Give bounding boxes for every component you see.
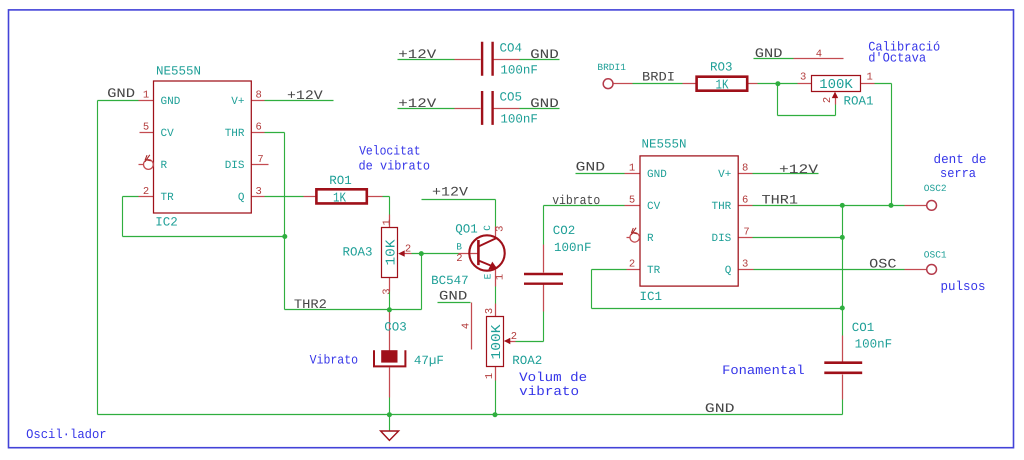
svg-text:1: 1 [143, 90, 149, 102]
svg-text:GND: GND [530, 47, 559, 62]
svg-text:Q: Q [725, 265, 732, 277]
svg-text:2: 2 [822, 97, 834, 103]
svg-text:E: E [483, 273, 494, 279]
svg-text:CV: CV [647, 201, 661, 213]
svg-text:4: 4 [816, 48, 822, 60]
svg-text:DIS: DIS [225, 160, 245, 172]
svg-text:IC1: IC1 [640, 290, 663, 304]
svg-text:1: 1 [629, 163, 635, 175]
svg-text:NE555N: NE555N [642, 137, 687, 151]
svg-text:de vibrato: de vibrato [359, 158, 431, 173]
svg-text:1: 1 [484, 373, 496, 379]
svg-text:BRDI1: BRDI1 [597, 62, 626, 73]
svg-text:3: 3 [742, 259, 748, 271]
svg-text:GND: GND [705, 401, 735, 416]
svg-text:OSC: OSC [869, 257, 897, 272]
svg-text:47µF: 47µF [414, 354, 444, 368]
svg-text:+12V: +12V [398, 96, 436, 111]
svg-text:2: 2 [143, 186, 149, 198]
svg-text:R: R [161, 160, 168, 172]
svg-text:OSC1: OSC1 [924, 249, 947, 260]
svg-text:CO3: CO3 [384, 321, 407, 335]
svg-text:CV: CV [161, 128, 175, 140]
svg-text:3: 3 [381, 288, 393, 294]
svg-text:pulsos: pulsos [941, 279, 986, 294]
svg-text:1K: 1K [716, 78, 730, 93]
svg-text:QO1: QO1 [455, 222, 478, 236]
svg-text:GND: GND [161, 96, 181, 108]
svg-text:1: 1 [495, 274, 507, 280]
svg-text:Vibrato: Vibrato [310, 353, 359, 368]
svg-text:DIS: DIS [711, 233, 731, 245]
svg-text:B: B [456, 242, 462, 253]
svg-text:V+: V+ [718, 169, 731, 181]
svg-text:7: 7 [257, 154, 263, 166]
svg-text:THR: THR [711, 201, 731, 213]
svg-text:GND: GND [107, 86, 135, 101]
svg-text:Oscil·lador: Oscil·lador [26, 427, 107, 442]
svg-text:2: 2 [405, 243, 411, 255]
svg-text:GND: GND [647, 169, 667, 181]
svg-text:CO1: CO1 [852, 321, 875, 335]
svg-text:CO4: CO4 [500, 41, 523, 55]
svg-text:5: 5 [143, 122, 149, 134]
svg-text:8: 8 [742, 163, 748, 175]
svg-text:GND: GND [755, 46, 783, 61]
svg-text:5: 5 [629, 195, 635, 207]
svg-text:C: C [482, 225, 493, 231]
svg-text:1: 1 [867, 71, 873, 83]
svg-text:Volum de: Volum de [519, 370, 587, 385]
svg-text:GND: GND [439, 289, 468, 304]
svg-text:vibrato: vibrato [552, 193, 600, 208]
svg-text:3: 3 [256, 186, 262, 198]
svg-text:100K: 100K [490, 324, 505, 360]
svg-text:2: 2 [629, 259, 635, 271]
svg-text:100nF: 100nF [855, 338, 893, 352]
svg-text:+12V: +12V [398, 47, 436, 62]
svg-text:Fonamental: Fonamental [722, 363, 805, 378]
svg-text:100nF: 100nF [500, 64, 538, 78]
svg-text:THR1: THR1 [762, 193, 799, 208]
svg-text:BRDI: BRDI [642, 70, 675, 85]
svg-text:NE555N: NE555N [156, 64, 201, 78]
svg-text:OSC2: OSC2 [924, 183, 947, 194]
svg-text:100nF: 100nF [554, 241, 592, 255]
svg-text:Q: Q [238, 192, 245, 204]
svg-text:CO2: CO2 [553, 224, 576, 238]
svg-text:dent de: dent de [934, 152, 987, 167]
svg-text:4: 4 [461, 323, 473, 329]
svg-text:V+: V+ [231, 96, 244, 108]
svg-text:ROA1: ROA1 [844, 94, 874, 108]
svg-text:100K: 100K [819, 78, 853, 93]
svg-text:3: 3 [800, 71, 806, 83]
svg-text:GND: GND [530, 96, 559, 111]
svg-text:7: 7 [743, 227, 749, 239]
svg-text:IC2: IC2 [155, 215, 178, 229]
svg-text:serra: serra [940, 166, 976, 181]
svg-text:RO3: RO3 [710, 60, 733, 74]
svg-text:+12V: +12V [432, 184, 468, 199]
svg-text:2: 2 [456, 253, 462, 265]
svg-text:vibrato: vibrato [519, 384, 579, 399]
svg-text:3: 3 [484, 308, 496, 314]
svg-text:100nF: 100nF [500, 113, 538, 127]
svg-text:RO1: RO1 [329, 174, 352, 188]
svg-text:CO5: CO5 [500, 91, 523, 105]
svg-text:3: 3 [495, 226, 507, 232]
svg-text:GND: GND [576, 160, 606, 175]
svg-text:THR: THR [225, 128, 245, 140]
svg-text:2: 2 [511, 331, 517, 343]
svg-text:d'Octava: d'Octava [868, 51, 926, 66]
svg-text:6: 6 [742, 195, 748, 207]
svg-text:R: R [647, 233, 654, 245]
svg-text:10K: 10K [385, 239, 400, 266]
svg-text:6: 6 [256, 122, 262, 134]
svg-text:+12V: +12V [779, 162, 818, 177]
svg-text:BC547: BC547 [431, 274, 469, 288]
svg-text:1: 1 [381, 219, 393, 225]
svg-text:ROA2: ROA2 [512, 354, 542, 368]
svg-text:TR: TR [161, 192, 175, 204]
svg-text:8: 8 [256, 90, 262, 102]
svg-text:TR: TR [647, 265, 661, 277]
svg-text:1K: 1K [333, 191, 347, 206]
svg-text:THR2: THR2 [294, 297, 327, 312]
svg-text:+12V: +12V [287, 88, 323, 103]
svg-text:Velocitat: Velocitat [359, 143, 421, 158]
svg-text:ROA3: ROA3 [343, 245, 373, 259]
